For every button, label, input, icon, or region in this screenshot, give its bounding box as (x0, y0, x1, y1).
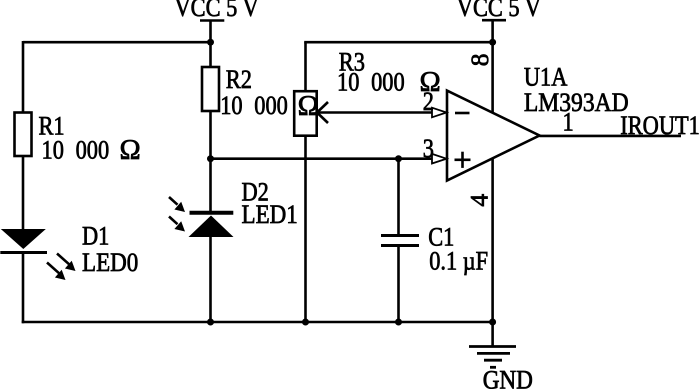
wire left rail top (corner down to R1) (22, 41, 25, 113)
svg-text:LM393AD: LM393AD (524, 89, 629, 118)
svg-text:GND: GND (483, 366, 533, 389)
wire right rail (VCC2 through op-amp to ground) (491, 20, 494, 322)
svg-text:LED1: LED1 (242, 201, 298, 230)
wire pin3 net (node to op-amp pin 3) (211, 157, 433, 160)
wire pot top to VCC2 horizontal (304, 42, 307, 91)
svg-text:000: 000 (76, 136, 110, 165)
svg-text:U1A: U1A (524, 63, 568, 92)
capacitor C1 (381, 159, 488, 322)
resistor R2 (202, 65, 252, 111)
wire VCC1 bar to R2 top (209, 21, 212, 68)
LED D2 (photodiode orientation) (169, 178, 298, 237)
svg-text:000: 000 (254, 91, 288, 120)
svg-text:0.1 µF: 0.1 µF (429, 247, 488, 276)
node junction dot R2/D2/pin3 net (207, 155, 214, 162)
node junction dot C1 tap (395, 155, 402, 162)
op-amp U1A LM393AD (447, 63, 629, 180)
svg-text:IROUT1: IROUT1 (620, 111, 700, 140)
wire R1 bottom to D1 anode (22, 156, 25, 230)
svg-text:2: 2 (423, 87, 434, 116)
svg-text:Ω: Ω (120, 135, 141, 166)
svg-text:1: 1 (563, 108, 574, 137)
svg-text:10: 10 (220, 91, 242, 120)
power VCC2 5V (top-right) (457, 0, 541, 23)
svg-text:D1: D1 (82, 222, 109, 251)
potentiometer R3 (294, 48, 440, 136)
svg-text:000: 000 (371, 68, 405, 97)
wire output pin 1 (540, 135, 682, 138)
node junction dot GND branch (489, 319, 496, 326)
svg-text:10: 10 (42, 136, 64, 165)
pin 2 arrow and label (423, 87, 447, 117)
wire R3 bottom to bottom rail (304, 136, 307, 322)
svg-text:LED0: LED0 (82, 248, 138, 277)
LED D1 (0, 222, 138, 280)
wire top-left horizontal (VCC node to left rail) (23, 41, 211, 44)
node junction dot C1/bottom rail (395, 319, 402, 326)
svg-text:10: 10 (337, 68, 359, 97)
svg-text:R2: R2 (226, 65, 252, 94)
wire R3 wiper to op-amp pin 2 (317, 111, 433, 114)
svg-text:8: 8 (465, 54, 494, 67)
wire D2 cathode to bottom rail (209, 237, 212, 322)
wire bottom rail (22, 321, 493, 324)
resistor R2 value label (over pot body) (220, 91, 319, 122)
svg-text:Ω: Ω (298, 91, 319, 122)
power VCC1 5V (top-left) (175, 0, 259, 23)
svg-text:3: 3 (423, 134, 434, 163)
svg-text:VCC 5 V: VCC 5 V (457, 0, 541, 23)
wire R2 bottom to D2 anode (209, 111, 212, 212)
wire D1 cathode to bottom rail (22, 253, 25, 324)
node junction dot R3/bottom rail (302, 319, 309, 326)
svg-text:VCC 5 V: VCC 5 V (175, 0, 259, 23)
pin 3 arrow and label (423, 134, 447, 163)
node junction dot D2/bottom rail (207, 319, 214, 326)
resistor R1 (15, 112, 141, 166)
ground GND (469, 322, 533, 389)
svg-text:4: 4 (464, 194, 493, 207)
node junction dot VCC2 branch (489, 39, 496, 46)
node junction dot at VCC1/R1 branch (207, 39, 214, 46)
